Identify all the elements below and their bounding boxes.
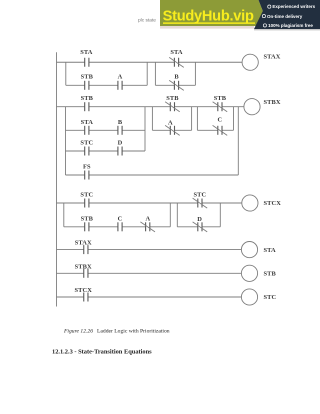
coil STB <box>241 265 257 281</box>
contact STB rung2 blockA (normally closed) <box>165 102 180 112</box>
contact STB rung3 branch (normally open) <box>85 222 89 231</box>
svg-text:plc state: plc state <box>138 17 156 23</box>
contact C rung3 branch (normally open) <box>118 222 122 231</box>
svg-text:STA: STA <box>80 49 93 56</box>
wire rung2 main <box>57 106 244 108</box>
label STAX coil <box>264 54 281 61</box>
wire rung2 NC-blockB branch line <box>197 129 233 131</box>
contact A rung2 blockA (normally closed) <box>165 125 180 135</box>
svg-text:STB: STB <box>264 271 277 278</box>
wire rung1 NC-block branch line <box>155 84 195 86</box>
label STB coil <box>264 271 277 278</box>
svg-text:B: B <box>174 73 179 80</box>
svg-text:STC: STC <box>80 191 93 198</box>
label STB rung3 branch <box>81 215 94 222</box>
watermark banner navy background <box>254 0 320 29</box>
svg-text:Figure 12.26Ladder Logic with: Figure 12.26Ladder Logic with Prioritiza… <box>63 329 170 335</box>
wire rung2 NC-blockA left vertical <box>151 107 153 131</box>
svg-text:C: C <box>118 215 123 222</box>
contact STB rung1 branch (normally open) <box>85 81 89 90</box>
svg-text:STBX: STBX <box>264 99 281 106</box>
label STC rung2 branch <box>80 140 93 147</box>
wire rung2 parallel-branch right vertical <box>144 107 146 151</box>
svg-text:STC: STC <box>194 191 207 198</box>
coil STC <box>241 289 257 305</box>
label STA rung2 branch <box>81 119 94 126</box>
label B rung2 branch <box>118 119 123 126</box>
label STB rung2 blockB <box>214 95 227 102</box>
contact STBX rung5 (normally open) <box>84 269 88 278</box>
svg-text:A: A <box>146 215 151 222</box>
wire rung4 main <box>57 249 242 251</box>
svg-text:FS: FS <box>83 163 91 170</box>
svg-text:STAX: STAX <box>75 240 92 247</box>
wire rung2 NC-blockB left vertical <box>196 107 198 131</box>
contact B rung1 block (normally closed) <box>169 80 184 90</box>
label FS rung2 branch <box>83 163 91 170</box>
svg-text:12.1.2.3 - State-Transition Eq: 12.1.2.3 - State-Transition Equations <box>52 348 152 355</box>
wire rung3 parallel-branch left vertical <box>63 203 65 227</box>
label D rung3 block <box>197 216 202 223</box>
wire rung3 NC-block branch line <box>177 226 220 228</box>
left power rail <box>56 52 58 306</box>
label C rung2 blockB <box>218 117 223 124</box>
label C rung3 branch <box>118 215 123 222</box>
wire rung1 parallel-branch left vertical <box>65 62 67 85</box>
wire rung5 main <box>57 272 242 274</box>
svg-text:STB: STB <box>166 95 179 102</box>
wire rung1 branch line <box>66 84 147 86</box>
wire rung2 NC-blockB right vertical <box>233 107 235 131</box>
svg-text:STCX: STCX <box>74 287 92 294</box>
contact STA rung2 branch (normally open) <box>85 126 89 135</box>
label D rung2 branch <box>118 140 123 147</box>
watermark banner bullet icon 2 <box>262 15 265 18</box>
svg-text:STB: STB <box>81 73 94 80</box>
contact STA rung1 (normally open) <box>85 58 89 67</box>
svg-text:STA: STA <box>81 119 94 126</box>
svg-text:STB: STB <box>214 95 227 102</box>
label STB rung2 blockA <box>166 95 179 102</box>
label STA rung1 <box>80 49 93 56</box>
svg-text:STCX: STCX <box>264 200 282 207</box>
contact D rung2 branch (normally open) <box>118 147 122 156</box>
label A rung3 branch <box>146 215 151 222</box>
contact A rung1 branch (normally open) <box>118 81 122 90</box>
wire rung2 FS branch riser <box>237 107 239 175</box>
watermark banner line 3 text <box>268 23 313 28</box>
wire rung6 main <box>57 296 242 298</box>
svg-text:B: B <box>118 119 123 126</box>
watermark banner bullet icon 3 <box>263 24 266 27</box>
label STCX rung6 <box>74 287 92 294</box>
label STCX coil <box>264 200 282 207</box>
header tiny text "plc state" <box>138 17 156 23</box>
wire rung2 parallel-branch left vertical <box>65 107 67 175</box>
label A rung2 blockA <box>168 119 173 126</box>
label STBX coil <box>264 99 281 106</box>
label STA coil <box>264 247 277 254</box>
contact D rung3 block (normally closed) <box>193 222 208 232</box>
label B rung1 block <box>174 73 179 80</box>
wire rung3 main <box>57 202 242 204</box>
wire rung2 branch STA-B line <box>66 129 146 131</box>
svg-text:STC: STC <box>264 294 277 301</box>
wire rung1 parallel-branch right vertical <box>146 62 148 85</box>
svg-text:STA: STA <box>170 49 183 56</box>
wire rung2 NC-blockA branch line <box>152 129 191 131</box>
ladder drawing <box>57 52 261 306</box>
watermark banner line 1 text <box>272 4 315 9</box>
svg-text:A: A <box>118 73 123 80</box>
svg-text:C: C <box>218 117 223 124</box>
label STC rung3 block <box>194 191 207 198</box>
wire rung2 branch STC-D line <box>66 150 146 152</box>
svg-text:STB: STB <box>81 95 94 102</box>
label STC rung3 <box>80 191 93 198</box>
contact FS rung2 branch (normally open) <box>85 171 89 180</box>
svg-text:STBX: STBX <box>75 263 92 270</box>
watermark banner shadow strip <box>160 26 254 29</box>
contact C rung2 blockB (normally closed) <box>213 125 228 135</box>
coil STBX <box>244 99 260 115</box>
svg-text:A: A <box>168 119 173 126</box>
svg-text:D: D <box>118 140 123 147</box>
label STBX rung5 <box>75 263 92 270</box>
contact STCX rung6 (normally open) <box>84 293 88 302</box>
svg-text:Experienced writers: Experienced writers <box>272 4 315 9</box>
watermark banner olive background <box>160 0 263 26</box>
svg-text:STC: STC <box>80 140 93 147</box>
coil STAX <box>242 54 258 70</box>
contact STAX rung4 (normally open) <box>84 245 88 254</box>
wire rung1 NC-block right vertical <box>194 62 196 85</box>
label STB rung2 <box>81 95 94 102</box>
wire rung3 branch line <box>64 226 171 228</box>
wire rung1 main <box>57 61 243 63</box>
label STA rung1 block <box>170 49 183 56</box>
svg-text:StudyHub.vip: StudyHub.vip <box>163 9 254 25</box>
watermark banner navy shadow strip <box>254 29 320 30</box>
watermark banner line 2 text <box>267 14 303 19</box>
svg-text:D: D <box>197 216 202 223</box>
contact STB rung2 blockB (normally closed) <box>213 102 228 112</box>
contact STC rung3 block (normally closed) <box>193 198 208 208</box>
label STAX rung4 <box>75 240 92 247</box>
label STC coil <box>264 294 277 301</box>
contact STC rung2 branch (normally open) <box>85 147 89 156</box>
section heading <box>52 348 152 355</box>
label STB rung1 branch <box>81 73 94 80</box>
wire rung2 branch FS line <box>66 174 239 176</box>
label A rung1 branch <box>118 73 123 80</box>
wire rung1 NC-block left vertical <box>154 62 156 85</box>
svg-text:STA: STA <box>264 247 277 254</box>
contact STC rung3 (normally open) <box>85 199 89 208</box>
svg-text:100% plagiarism free: 100% plagiarism free <box>268 23 313 28</box>
watermark banner bullet icon 1 <box>268 5 271 8</box>
coil STA <box>241 242 257 258</box>
contact B rung2 branch (normally open) <box>118 126 122 135</box>
contact STB rung2 (normally open) <box>85 102 89 111</box>
wire rung3 NC-block left vertical <box>176 203 178 227</box>
svg-text:STB: STB <box>81 215 94 222</box>
contact A rung3 branch (normally closed) <box>140 222 155 232</box>
wire rung3 parallel-branch right vertical <box>169 203 171 227</box>
svg-text:On-time delivery: On-time delivery <box>267 14 303 19</box>
wire rung2 NC-blockA right vertical <box>191 107 193 131</box>
svg-text:STAX: STAX <box>264 54 281 61</box>
contact STA rung1 block (normally closed) <box>169 57 184 67</box>
figure caption <box>63 329 170 335</box>
watermark banner StudyHub.vip text <box>163 9 255 25</box>
coil STCX <box>242 195 258 211</box>
wire rung3 NC-block right vertical <box>219 203 221 227</box>
